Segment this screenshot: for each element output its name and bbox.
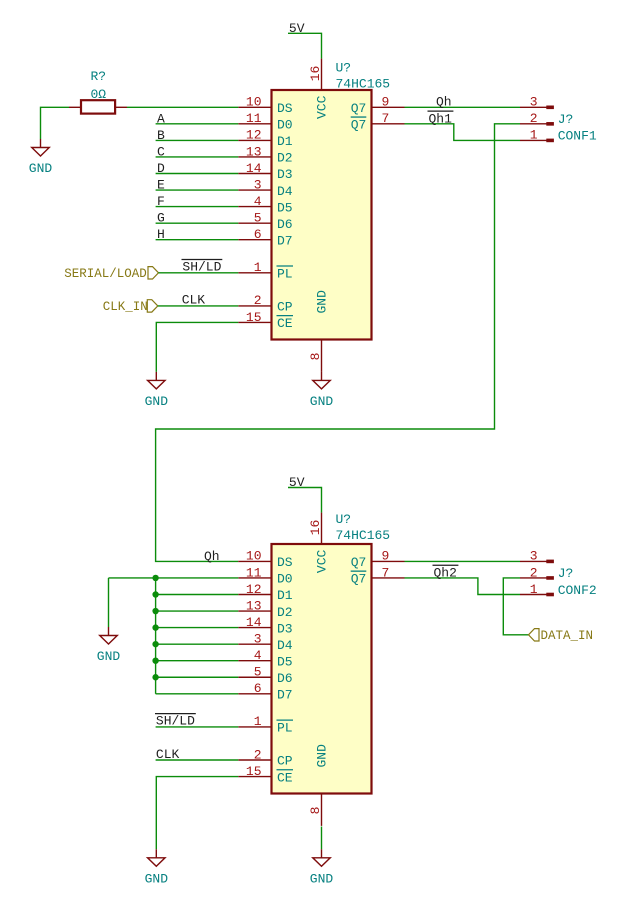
svg-text:3: 3 <box>530 549 538 564</box>
U1 pin 4 (D5) <box>238 194 292 215</box>
svg-text:CE: CE <box>277 770 293 785</box>
U1 pin 15 (CE) <box>238 310 293 331</box>
U2 value 74HC165 <box>336 528 391 543</box>
wire U2 Q7-inv to J2 pin 1 <box>405 578 521 595</box>
U2 pin 10 (DS) <box>238 549 293 570</box>
svg-text:13: 13 <box>246 144 262 159</box>
svg-text:74HC165: 74HC165 <box>336 528 391 543</box>
svg-text:2: 2 <box>530 565 538 580</box>
wire to U2 D2 <box>156 610 239 612</box>
svg-text:D1: D1 <box>277 588 293 603</box>
svg-text:GND: GND <box>97 649 121 664</box>
power label 5V (top) <box>289 21 305 36</box>
U1 pin 9 (Q7) <box>351 95 405 116</box>
U2 pin 2 (CP) <box>238 747 293 768</box>
wire to U2 D3 <box>156 627 239 629</box>
svg-text:D7: D7 <box>277 688 293 703</box>
svg-text:8: 8 <box>308 353 323 361</box>
label Qh <box>436 94 452 109</box>
connector J1 pin 1 <box>520 128 554 143</box>
svg-text:16: 16 <box>308 66 323 82</box>
svg-text:SH/LD: SH/LD <box>182 260 221 275</box>
svg-text:Qh2: Qh2 <box>434 565 457 580</box>
wire U2 Q7 to J2 pin 3 <box>405 560 521 562</box>
U1 pin 10 (DS) <box>238 95 293 116</box>
svg-text:2: 2 <box>254 747 262 762</box>
U2 pin 4 (D5) <box>238 648 292 669</box>
svg-text:11: 11 <box>246 111 262 126</box>
svg-text:13: 13 <box>246 598 262 613</box>
svg-text:D4: D4 <box>277 184 293 199</box>
svg-text:10: 10 <box>246 95 262 110</box>
U2 pin 12 (D1) <box>238 582 293 603</box>
svg-text:6: 6 <box>254 227 262 242</box>
connector J2 pin 2 <box>520 565 554 580</box>
U1 reference U? <box>336 61 352 76</box>
wire SH/LD to U2 PL <box>156 726 239 728</box>
svg-text:Q7: Q7 <box>351 101 367 116</box>
svg-text:PL: PL <box>277 267 293 282</box>
label CLK (bottom) <box>156 747 180 762</box>
U1 pin 2 (CP) <box>238 293 293 314</box>
label SH/LD (overline, bottom) <box>155 714 196 729</box>
svg-text:SH/LD: SH/LD <box>156 714 195 729</box>
svg-text:2: 2 <box>530 111 538 126</box>
label CLK <box>182 293 206 308</box>
label SH/LD (overline) <box>182 260 223 275</box>
svg-text:6: 6 <box>254 681 262 696</box>
U1 pin 8 (GND) <box>308 290 330 372</box>
wire to U2 D4 <box>156 643 239 645</box>
U1 pin 5 (D6) <box>238 210 292 231</box>
svg-text:DS: DS <box>277 101 293 116</box>
U2 pin 15 (CE) <box>238 764 293 785</box>
label E <box>157 177 165 192</box>
junction at D3 bus <box>152 624 158 630</box>
svg-text:12: 12 <box>246 582 262 597</box>
wire U1 Q7 to J1 pin 3 <box>405 106 521 108</box>
ground GND at U1 CE <box>145 372 169 409</box>
U2 pin 3 (D4) <box>238 631 293 652</box>
wire to U2 D0 <box>156 577 239 579</box>
label C <box>157 144 165 159</box>
ground GND at resistor <box>29 139 53 176</box>
connector J1 pin 3 <box>520 95 554 110</box>
wire SERIAL/LOAD to PL <box>159 272 239 274</box>
svg-text:16: 16 <box>308 520 323 536</box>
U1 pin 14 (D3) <box>238 161 292 182</box>
junction at D1 bus <box>152 591 158 597</box>
U1 pin 6 (D7) <box>238 227 292 248</box>
connector J2 value CONF2 <box>558 583 597 598</box>
wire to U2 D7 <box>156 693 239 695</box>
svg-text:D3: D3 <box>277 167 293 182</box>
U2 pin 13 (D2) <box>238 598 292 619</box>
svg-text:CP: CP <box>277 754 293 769</box>
svg-text:GND: GND <box>145 394 169 409</box>
svg-text:D4: D4 <box>277 638 293 653</box>
label H <box>157 227 165 242</box>
svg-text:D0: D0 <box>277 118 293 133</box>
svg-text:74HC165: 74HC165 <box>336 77 391 92</box>
resistor value 0 ohm <box>90 87 106 102</box>
power label 5V (bottom) <box>289 475 305 490</box>
wire CLK to U2 CP <box>156 759 239 761</box>
svg-text:E: E <box>157 177 165 192</box>
wire to U2 D1 <box>156 594 239 596</box>
svg-text:C: C <box>157 144 165 159</box>
svg-text:D6: D6 <box>277 217 293 232</box>
svg-text:D: D <box>157 161 165 176</box>
svg-text:12: 12 <box>246 128 262 143</box>
svg-text:R?: R? <box>90 69 106 84</box>
label F <box>157 194 165 209</box>
U2 pin 6 (D7) <box>238 681 292 702</box>
svg-text:D7: D7 <box>277 233 293 248</box>
wire to U2 D6 <box>156 676 239 678</box>
wire input F to D5 <box>156 206 239 208</box>
svg-text:14: 14 <box>246 615 262 630</box>
svg-text:3: 3 <box>530 95 538 110</box>
svg-text:F: F <box>157 194 165 209</box>
ground GND at U2 CE <box>145 849 169 886</box>
svg-text:H: H <box>157 227 165 242</box>
svg-text:Qh: Qh <box>204 549 220 564</box>
wire input E to D4 <box>156 189 239 191</box>
svg-text:Q7: Q7 <box>351 555 367 570</box>
U1 pin 12 (D1) <box>238 128 293 149</box>
svg-text:GND: GND <box>29 161 53 176</box>
svg-text:GND: GND <box>145 871 169 886</box>
svg-text:D2: D2 <box>277 151 293 166</box>
svg-text:Qh: Qh <box>436 94 452 109</box>
resistor R? <box>69 100 127 113</box>
wire input A to D0 <box>156 123 239 125</box>
svg-text:CE: CE <box>277 316 293 331</box>
svg-text:CONF1: CONF1 <box>558 129 597 144</box>
connector J1 reference J? <box>558 112 574 127</box>
label Qh2 (overline) <box>433 565 459 580</box>
wire input H to D7 <box>156 239 239 241</box>
wire input D to D3 <box>156 173 239 175</box>
label D <box>157 161 165 176</box>
svg-text:2: 2 <box>254 293 262 308</box>
U2 pin 9 (Q7) <box>351 549 405 570</box>
svg-text:DATA_IN: DATA_IN <box>541 629 594 643</box>
svg-text:10: 10 <box>246 549 262 564</box>
svg-text:U?: U? <box>336 61 352 76</box>
connector J2 pin 3 <box>520 549 554 564</box>
U1 pin 1 (PL) <box>238 260 293 281</box>
wire U2 pin 8 to ground <box>321 827 323 850</box>
U1 pin 7 (Q7 inverted) <box>351 111 405 132</box>
connector J2 pin 1 <box>520 582 554 597</box>
junction at D0 bus <box>152 575 158 581</box>
svg-text:GND: GND <box>310 871 334 886</box>
U2 pin 1 (PL) <box>238 714 293 735</box>
svg-text:5: 5 <box>254 210 262 225</box>
svg-text:Q7: Q7 <box>351 572 367 587</box>
wire resistor to U1 DS <box>127 106 238 108</box>
svg-text:U?: U? <box>336 512 352 527</box>
svg-text:D0: D0 <box>277 572 293 587</box>
svg-text:4: 4 <box>254 648 262 663</box>
wire ground bus vertical D0-D7 <box>155 578 157 694</box>
U2 pin 16 (VCC) <box>308 513 330 574</box>
U1 pin 16 (VCC) <box>308 59 330 119</box>
wire 5V to U1 VCC <box>288 33 322 58</box>
svg-text:VCC: VCC <box>315 95 330 119</box>
U2 pin 7 (Q7 inverted) <box>351 565 405 586</box>
wire U2 CE to ground <box>156 777 238 850</box>
IC U? 74HC165 body (U1) <box>272 90 372 340</box>
svg-text:GND: GND <box>315 744 330 768</box>
wire CE to ground <box>156 322 238 371</box>
hierarchical label CLK_IN <box>103 300 158 315</box>
ground GND at U2 data inputs <box>97 627 121 664</box>
connector J1 pin 2 <box>520 111 554 126</box>
U2 pin 14 (D3) <box>238 615 292 636</box>
U1 pin 3 (D4) <box>238 177 293 198</box>
svg-text:0Ω: 0Ω <box>90 87 106 102</box>
IC U? 74HC165 body (U2) <box>272 544 372 794</box>
U1 pin 13 (D2) <box>238 144 292 165</box>
hierarchical label SERIAL/LOAD <box>64 267 158 282</box>
svg-text:D2: D2 <box>277 605 293 620</box>
svg-text:GND: GND <box>310 394 334 409</box>
U2 reference U? <box>336 512 352 527</box>
svg-text:J?: J? <box>558 112 574 127</box>
svg-text:PL: PL <box>277 721 293 736</box>
svg-text:G: G <box>157 211 165 226</box>
svg-text:1: 1 <box>254 260 262 275</box>
svg-text:9: 9 <box>382 95 390 110</box>
ground GND at U1 pin 8 <box>310 372 334 409</box>
svg-text:4: 4 <box>254 194 262 209</box>
wire ground drop (left) <box>108 578 110 627</box>
U2 pin 11 (D0) <box>238 565 292 586</box>
svg-text:5: 5 <box>254 665 262 680</box>
svg-text:SERIAL/LOAD: SERIAL/LOAD <box>64 267 147 281</box>
svg-text:D3: D3 <box>277 621 293 636</box>
label G <box>157 211 165 226</box>
U1 value 74HC165 <box>336 77 391 92</box>
label A <box>157 111 165 126</box>
svg-text:D5: D5 <box>277 654 293 669</box>
svg-text:A: A <box>157 111 165 126</box>
svg-text:1: 1 <box>530 128 538 143</box>
U1 pin 11 (D0) <box>238 111 292 132</box>
svg-text:7: 7 <box>382 565 390 580</box>
wire resistor to GND <box>41 107 70 139</box>
resistor reference R? <box>90 69 106 84</box>
wire input C to D2 <box>156 156 239 158</box>
junction at D4 bus <box>152 641 158 647</box>
U2 pin 5 (D6) <box>238 665 292 686</box>
wire CLK_IN to CP <box>158 305 239 307</box>
wire D0 to left ground <box>109 577 156 579</box>
svg-text:D6: D6 <box>277 671 293 686</box>
wire input B to D1 <box>156 139 239 141</box>
svg-text:Qh1: Qh1 <box>429 111 453 126</box>
svg-text:7: 7 <box>382 111 390 126</box>
label B <box>157 128 165 143</box>
svg-text:D5: D5 <box>277 200 293 215</box>
connector J1 value CONF1 <box>558 129 597 144</box>
wire J2 pin 2 to DATA_IN <box>503 578 528 635</box>
svg-text:3: 3 <box>254 177 262 192</box>
wire 5V to U2 VCC <box>288 488 322 513</box>
junction at D6 bus <box>152 674 158 680</box>
svg-text:11: 11 <box>246 565 262 580</box>
svg-text:B: B <box>157 128 165 143</box>
svg-text:3: 3 <box>254 631 262 646</box>
wire to U2 D5 <box>156 660 239 662</box>
svg-text:15: 15 <box>246 310 262 325</box>
svg-text:CONF2: CONF2 <box>558 583 597 598</box>
svg-text:CP: CP <box>277 300 293 315</box>
svg-text:1: 1 <box>530 582 538 597</box>
svg-text:1: 1 <box>254 714 262 729</box>
label Qh1 (overline) <box>428 111 454 126</box>
connector J2 reference J? <box>558 566 574 581</box>
junction at D5 bus <box>152 658 158 664</box>
svg-text:CLK_IN: CLK_IN <box>103 300 148 314</box>
svg-text:Q7: Q7 <box>351 118 367 133</box>
wire input G to D6 <box>156 222 239 224</box>
U2 pin 8 (GND) <box>308 744 330 826</box>
ground GND at U2 pin 8 <box>310 849 334 886</box>
svg-text:VCC: VCC <box>315 550 330 574</box>
wire J1 pin 2 daisy chain to U2 DS <box>156 124 520 562</box>
wire U1 Q7-inv to J1 pin 1 <box>405 124 521 141</box>
svg-text:J?: J? <box>558 566 574 581</box>
svg-text:CLK: CLK <box>156 747 180 762</box>
svg-text:CLK: CLK <box>182 293 206 308</box>
junction at D2 bus <box>152 608 158 614</box>
svg-text:D1: D1 <box>277 134 293 149</box>
svg-text:9: 9 <box>382 549 390 564</box>
hierarchical label DATA_IN <box>529 629 594 644</box>
svg-text:14: 14 <box>246 161 262 176</box>
label Qh (U2 input) <box>204 549 220 564</box>
svg-text:8: 8 <box>308 807 323 815</box>
svg-text:15: 15 <box>246 764 262 779</box>
svg-text:DS: DS <box>277 555 293 570</box>
svg-text:GND: GND <box>315 290 330 314</box>
